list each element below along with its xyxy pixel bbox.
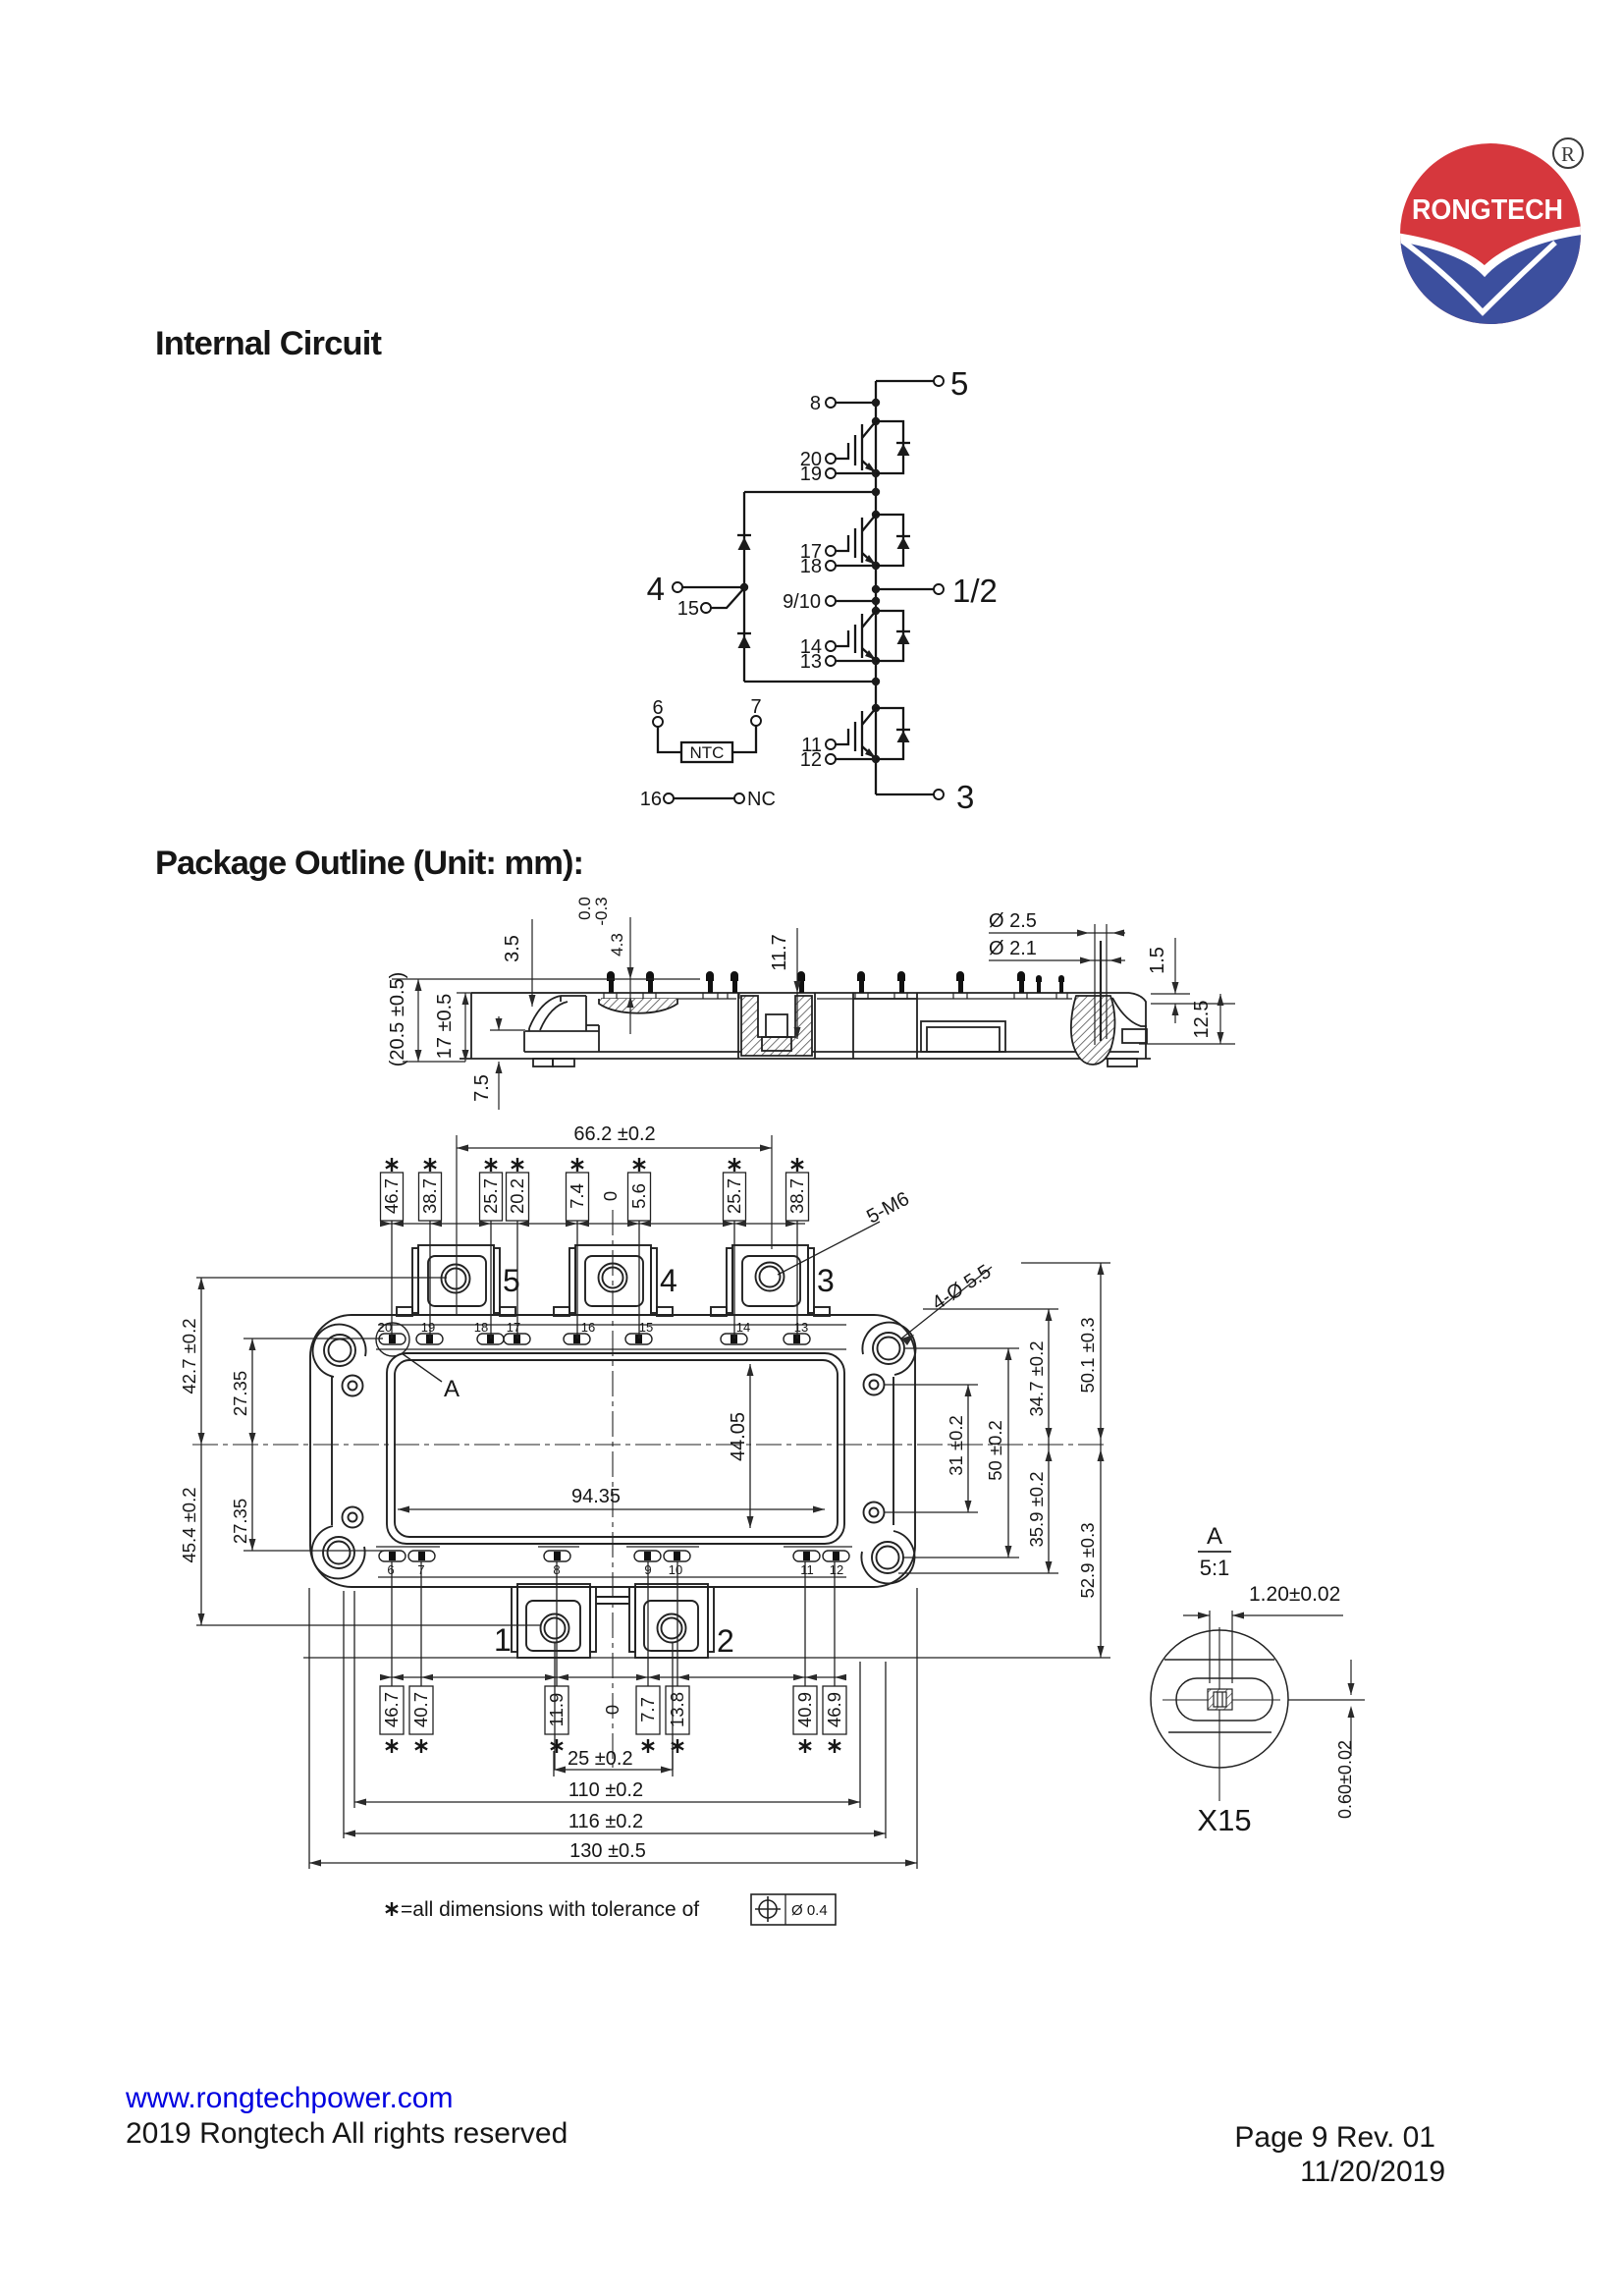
- transistor Q4 (IGBT bottom): [800, 704, 880, 771]
- dim 66.2: [457, 1123, 772, 1316]
- mounting hole top-right: [862, 1323, 915, 1395]
- svg-text:20: 20: [378, 1320, 392, 1335]
- svg-text:66.2 ±0.2: 66.2 ±0.2: [573, 1123, 655, 1145]
- bottom boxed dim chain: [380, 1561, 846, 1770]
- dim 7.5: [471, 1016, 525, 1110]
- svg-text:18: 18: [800, 556, 822, 577]
- slot obround: [1176, 1678, 1272, 1721]
- svg-text:46.7: 46.7: [381, 1692, 402, 1727]
- svg-text:11/20/2019: 11/20/2019: [1300, 2156, 1445, 2188]
- svg-text:Package Outline (Unit: mm):: Package Outline (Unit: mm):: [155, 845, 584, 882]
- pin 15: [677, 589, 743, 620]
- svg-text:RONGTECH: RONGTECH: [1412, 194, 1563, 226]
- dim 11.7: [769, 928, 801, 1039]
- dim 17: [434, 993, 560, 1062]
- svg-text:11.7: 11.7: [769, 934, 790, 970]
- svg-text:Page 9 Rev. 01: Page 9 Rev. 01: [1234, 2121, 1435, 2154]
- svg-text:11: 11: [800, 1562, 814, 1577]
- dim dia 2.5: [989, 910, 1125, 1045]
- left dim 45.4: [179, 1445, 540, 1625]
- terminal tab 2: [596, 1584, 734, 1659]
- svg-text:13: 13: [800, 651, 822, 673]
- svg-text:25.7: 25.7: [724, 1178, 744, 1214]
- svg-text:4.3: 4.3: [608, 933, 626, 957]
- dim 3.5: [502, 919, 536, 1007]
- detail label A 5:1: [1198, 1523, 1231, 1580]
- top pin slot row: [378, 1320, 810, 1344]
- pin 8: [810, 393, 880, 414]
- svg-text:Ø 2.5: Ø 2.5: [989, 910, 1037, 932]
- svg-text:18: 18: [474, 1320, 488, 1335]
- svg-text:27.35: 27.35: [230, 1371, 250, 1416]
- svg-text:19: 19: [421, 1320, 435, 1335]
- dim 1.20: [1183, 1583, 1343, 1683]
- svg-text:2: 2: [717, 1623, 734, 1659]
- svg-text:38.7: 38.7: [786, 1178, 807, 1214]
- svg-text:www.rongtechpower.com: www.rongtechpower.com: [125, 2082, 454, 2114]
- right dim 31: [884, 1385, 978, 1512]
- svg-text:5-M6: 5-M6: [863, 1188, 913, 1229]
- pin 16 / NC: [640, 789, 776, 810]
- svg-text:Internal Circuit: Internal Circuit: [155, 325, 383, 362]
- svg-text:110 ±0.2: 110 ±0.2: [568, 1779, 643, 1801]
- node: bus to left branch lower: [744, 678, 880, 685]
- svg-text:4-Ø 5.5: 4-Ø 5.5: [928, 1261, 995, 1315]
- svg-text:1.20±0.02: 1.20±0.02: [1249, 1583, 1340, 1606]
- terminal 5: [876, 365, 968, 402]
- svg-text:Ø 0.4: Ø 0.4: [791, 1902, 828, 1919]
- dim dia 2.1: [989, 938, 1125, 964]
- dim 4.3 +0.0/-0.3: [575, 897, 634, 1034]
- svg-text:4: 4: [647, 571, 665, 607]
- leader 5-M6: [778, 1188, 913, 1275]
- terminal 1/2: [872, 573, 998, 609]
- transistor Q2: [800, 511, 880, 577]
- scale label X15: [1197, 1803, 1251, 1837]
- svg-text:7.7: 7.7: [637, 1697, 658, 1722]
- pins on lid top: [607, 971, 1064, 993]
- svg-text:25.7: 25.7: [480, 1178, 501, 1214]
- svg-text:13: 13: [794, 1320, 808, 1335]
- diode D1 (antiparallel Q1): [876, 421, 910, 473]
- svg-text:46.7: 46.7: [381, 1178, 402, 1214]
- svg-text:15: 15: [677, 598, 699, 620]
- page title: Internal Circuit: [155, 325, 383, 362]
- dim 110: [354, 1591, 860, 1808]
- svg-text:8: 8: [810, 393, 821, 414]
- svg-text:40.9: 40.9: [794, 1692, 815, 1727]
- center power connector hatched: [738, 993, 815, 1059]
- svg-text:12: 12: [830, 1562, 843, 1577]
- terminal tab 1: [494, 1584, 596, 1658]
- diode D6 (clamp lower): [737, 633, 751, 648]
- dim 0.60: [1288, 1660, 1365, 1819]
- pin 7: [732, 696, 762, 752]
- svg-text:X15: X15: [1197, 1803, 1251, 1837]
- LOGO: [1394, 138, 1587, 330]
- svg-text:46.9: 46.9: [824, 1692, 844, 1727]
- footer url: [125, 2082, 454, 2114]
- svg-text:35.9 ±0.2: 35.9 ±0.2: [1026, 1471, 1047, 1547]
- right dim 50.1 / 52.9: [303, 1263, 1110, 1658]
- module body side profile: [460, 993, 1151, 1066]
- svg-text:31 ±0.2: 31 ±0.2: [946, 1415, 966, 1476]
- left terminal cap: [524, 996, 599, 1052]
- svg-text:50.1 ±0.3: 50.1 ±0.3: [1077, 1317, 1098, 1393]
- left dim 27.35 upper: [230, 1339, 383, 1445]
- bottom pin slot row: [379, 1551, 849, 1577]
- tolerance note: [386, 1894, 836, 1925]
- svg-text:38.7: 38.7: [419, 1178, 440, 1214]
- node: bus to left branch upper: [744, 488, 880, 496]
- centerline vertical 0-ref: [612, 1210, 614, 1768]
- svg-text:130 ±0.5: 130 ±0.5: [569, 1840, 646, 1862]
- right hatched press-fit plug: [1071, 996, 1147, 1065]
- svg-text:3: 3: [817, 1263, 835, 1298]
- terminal tab 3: [711, 1245, 835, 1316]
- svg-text:13.8: 13.8: [667, 1692, 687, 1727]
- left dim 42.7: [179, 1278, 447, 1445]
- svg-text:12: 12: [800, 749, 822, 771]
- right dim 34.7 / 35.9: [898, 1309, 1058, 1573]
- svg-text:25 ±0.2: 25 ±0.2: [568, 1748, 633, 1770]
- hatched pin section: [1208, 1689, 1232, 1710]
- wire main vertical bus: [875, 381, 877, 794]
- svg-text:7.5: 7.5: [471, 1074, 493, 1102]
- svg-text:116 ±0.2: 116 ±0.2: [568, 1811, 643, 1832]
- svg-text:11.9: 11.9: [546, 1693, 567, 1727]
- svg-text:17: 17: [507, 1320, 520, 1335]
- svg-text:=all dimensions with tolerance: =all dimensions with tolerance of: [401, 1898, 699, 1921]
- footer copyright: [126, 2117, 568, 2150]
- svg-text:6: 6: [387, 1562, 394, 1577]
- diode D2 (antiparallel Q2): [876, 515, 910, 566]
- module outline: [310, 1315, 915, 1587]
- inner dim 94.35: [398, 1486, 825, 1513]
- page title: Package Outline: [155, 845, 584, 882]
- middle housing boxes: [853, 993, 1005, 1059]
- svg-text:-0.3: -0.3: [592, 897, 611, 925]
- svg-text:1/2: 1/2: [952, 573, 998, 609]
- mounting hole top-left: [313, 1325, 366, 1396]
- dim 116: [344, 1591, 886, 1838]
- svg-text:52.9 ±0.3: 52.9 ±0.3: [1077, 1522, 1098, 1598]
- svg-text:15: 15: [639, 1320, 653, 1335]
- svg-text:50 ±0.2: 50 ±0.2: [985, 1420, 1005, 1481]
- svg-text:44.05: 44.05: [728, 1412, 749, 1461]
- svg-text:14: 14: [736, 1320, 750, 1335]
- diode D3 (antiparallel Q3): [876, 611, 910, 661]
- terminal tab 5: [397, 1245, 520, 1316]
- svg-text:5: 5: [950, 365, 968, 402]
- svg-text:7: 7: [750, 696, 761, 718]
- dim 130: [309, 1588, 917, 1869]
- svg-text:5.6: 5.6: [628, 1183, 649, 1209]
- svg-text:3: 3: [956, 779, 974, 815]
- svg-text:1: 1: [494, 1622, 512, 1658]
- dim 20.5: [387, 972, 700, 1067]
- logo circle red: [1400, 143, 1581, 324]
- right dim 50: [903, 1348, 1019, 1558]
- mounting hole bottom-right: [861, 1503, 914, 1584]
- center cross lines: [1163, 1627, 1280, 1801]
- svg-text:1.5: 1.5: [1147, 947, 1168, 974]
- svg-text:16: 16: [581, 1320, 595, 1335]
- footer page number: [1234, 2121, 1435, 2154]
- hatched solder dish: [599, 999, 677, 1013]
- svg-text:34.7 ±0.2: 34.7 ±0.2: [1026, 1340, 1047, 1416]
- svg-text:45.4 ±0.2: 45.4 ±0.2: [179, 1487, 199, 1562]
- dim 1.5: [1147, 938, 1235, 1023]
- pin 6: [652, 697, 681, 752]
- top boxed dim chain: [380, 1158, 809, 1339]
- wire left branch vertical: [743, 492, 745, 682]
- svg-text:16: 16: [640, 789, 662, 810]
- svg-text:0: 0: [600, 1191, 621, 1201]
- svg-text:R: R: [1561, 142, 1575, 166]
- svg-text:20.2: 20.2: [507, 1178, 527, 1214]
- left dim 27.35 lower: [230, 1445, 383, 1551]
- svg-text:2019 Rongtech All rights reser: 2019 Rongtech All rights reserved: [126, 2117, 568, 2150]
- svg-text:94.35: 94.35: [571, 1486, 621, 1507]
- detail circle: [1151, 1630, 1288, 1768]
- svg-text:A: A: [1207, 1523, 1222, 1550]
- mounting hole bottom-left: [312, 1507, 365, 1579]
- inner dim 44.05: [728, 1364, 754, 1528]
- svg-text:9/10: 9/10: [783, 591, 821, 613]
- pin 9/10: [783, 591, 880, 613]
- diode D4 (antiparallel Q4): [876, 708, 910, 759]
- svg-text:27.35: 27.35: [230, 1499, 250, 1544]
- svg-text:40.7: 40.7: [410, 1692, 431, 1727]
- thermistor NTC: [681, 742, 732, 762]
- svg-text:42.7 ±0.2: 42.7 ±0.2: [179, 1318, 199, 1394]
- svg-text:NTC: NTC: [690, 743, 725, 762]
- footer date: [1300, 2156, 1445, 2188]
- svg-text:7.4: 7.4: [567, 1183, 587, 1209]
- svg-text:10: 10: [669, 1562, 682, 1577]
- dim 25: [554, 1748, 673, 1777]
- svg-text:0: 0: [602, 1705, 622, 1715]
- svg-text:17 ±0.5: 17 ±0.5: [434, 994, 456, 1060]
- dim 12.5: [1139, 994, 1235, 1044]
- svg-text:12.5: 12.5: [1191, 1001, 1213, 1039]
- svg-text:5:1: 5:1: [1200, 1556, 1230, 1580]
- inner lid: [387, 1353, 844, 1544]
- terminal 3: [876, 779, 974, 815]
- leader 4-dia5.5: [901, 1261, 995, 1345]
- centerline horizontal: [192, 1444, 1108, 1446]
- svg-text:Ø 2.1: Ø 2.1: [989, 938, 1037, 959]
- svg-text:6: 6: [652, 697, 663, 719]
- transistor Q1 (IGBT top): [800, 417, 880, 485]
- svg-text:4: 4: [660, 1263, 677, 1298]
- svg-text:3.5: 3.5: [502, 935, 523, 962]
- svg-text:(20.5 ±0.5): (20.5 ±0.5): [387, 972, 408, 1067]
- svg-text:0.60±0.02: 0.60±0.02: [1335, 1740, 1355, 1819]
- svg-text:19: 19: [800, 464, 822, 485]
- diode D5 (clamp upper): [737, 535, 751, 550]
- terminal 4: [647, 571, 749, 607]
- svg-text:A: A: [444, 1376, 460, 1402]
- terminal tab 4: [554, 1245, 677, 1316]
- transistor Q3: [800, 607, 880, 673]
- registered mark: [1553, 138, 1583, 168]
- svg-text:NC: NC: [747, 789, 776, 810]
- detail balloon A: [376, 1323, 460, 1402]
